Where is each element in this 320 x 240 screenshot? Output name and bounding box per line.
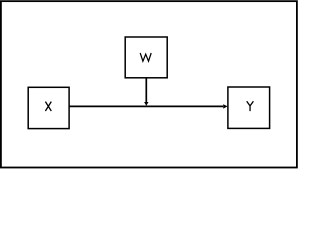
box Y [228,87,270,128]
arrowhead onto X-Y wire [144,102,148,106]
label Y [247,101,254,111]
box X [28,87,69,128]
box W [125,37,167,78]
outer border frame [1,1,297,167]
label X [45,102,51,111]
label W [140,53,151,61]
wire X to Y [69,105,223,107]
arrowhead into Y [223,104,227,108]
wire W down [145,78,147,102]
